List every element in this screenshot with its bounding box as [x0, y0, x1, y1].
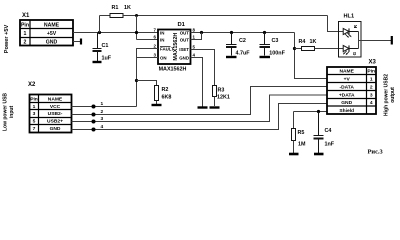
wire ON stub: [137, 57, 159, 59]
svg-text:MAX1562H: MAX1562H: [159, 67, 187, 73]
svg-text:Pin: Pin: [21, 22, 29, 28]
wire HL1 internal bus: [358, 32, 360, 49]
connector X1: [20, 20, 73, 46]
svg-text:4: 4: [370, 100, 373, 106]
svg-text:ON: ON: [160, 55, 167, 60]
svg-text:R2: R2: [162, 87, 169, 93]
svg-text:D1: D1: [178, 22, 186, 28]
ground below R3: [210, 106, 220, 108]
svg-text:R1: R1: [112, 5, 119, 11]
capacitor C1: [93, 33, 102, 62]
resistor R4: [302, 47, 315, 51]
capacitor C2: [226, 33, 237, 56]
wire HL1 output: [359, 40, 392, 42]
LED assembly HL1 box: [339, 22, 362, 58]
svg-text:C1: C1: [102, 43, 109, 49]
wire FAULT stub: [137, 49, 159, 107]
svg-text:2: 2: [101, 109, 104, 115]
svg-text:Pin: Pin: [367, 69, 375, 75]
svg-text:Low power USB: Low power USB: [3, 93, 9, 131]
wire OUT down to X3 +V: [295, 33, 328, 79]
svg-text:High power USB2: High power USB2: [384, 74, 390, 116]
wire net1 VCC: [72, 106, 137, 108]
svg-text:C4: C4: [325, 128, 332, 134]
node dot C4: [317, 110, 320, 113]
wire rail down to HL1: [328, 16, 344, 32]
resistor R3: [213, 86, 217, 97]
ground below C2: [226, 56, 237, 58]
resistor R5: [292, 129, 296, 141]
ground below C4: [314, 153, 324, 156]
svg-text:1nF: 1nF: [325, 142, 335, 148]
node dot +5V rail branch: [98, 31, 101, 34]
capacitor C4: [314, 112, 324, 154]
svg-text:IN: IN: [160, 37, 164, 42]
svg-text:FAULT: FAULT: [160, 46, 174, 51]
svg-text:Рис.3: Рис.3: [368, 149, 383, 156]
FAULT overline: [160, 46, 171, 48]
svg-text:OUT: OUT: [180, 30, 190, 35]
ground below R5: [289, 153, 299, 156]
resistor R2: [155, 86, 159, 101]
node dot net4: [92, 128, 96, 132]
svg-text:1uF: 1uF: [102, 56, 112, 62]
svg-text:1M: 1M: [298, 141, 306, 147]
svg-text:2: 2: [24, 40, 27, 46]
wire net3 USB2+: [72, 95, 328, 122]
wire shield down to R5: [293, 112, 295, 129]
svg-text:G: G: [352, 51, 357, 55]
ground below R2: [152, 104, 162, 106]
ground below C3: [260, 56, 271, 58]
svg-text:GND: GND: [179, 55, 189, 60]
node dot R2 branch: [135, 79, 138, 82]
svg-text:-DATA: -DATA: [339, 84, 354, 90]
svg-text:NAME: NAME: [44, 22, 60, 28]
svg-text:1: 1: [370, 76, 373, 82]
svg-text:X3: X3: [369, 60, 377, 66]
svg-text:GND: GND: [46, 40, 58, 46]
svg-text:X2: X2: [28, 82, 36, 88]
wire to R2: [137, 81, 157, 86]
wire to R4: [295, 48, 302, 50]
wire R4 to HL1: [315, 48, 344, 50]
terminal bar X1 GND: [80, 39, 82, 45]
IC D1 pin names: [160, 30, 174, 60]
node dot net3: [92, 120, 96, 124]
wire net4 GND: [72, 104, 328, 130]
svg-text:Power +5V: Power +5V: [4, 25, 10, 54]
svg-text:VCC: VCC: [50, 104, 61, 110]
ground below GND pin: [198, 106, 208, 108]
svg-text:2: 2: [370, 84, 373, 90]
svg-text:NAME: NAME: [48, 96, 63, 102]
node dot C2: [230, 31, 233, 34]
svg-text:R3: R3: [218, 87, 225, 93]
svg-text:1: 1: [24, 31, 27, 37]
terminal bar HL1 output: [391, 36, 393, 45]
ground below C1: [93, 61, 102, 63]
svg-text:12K1: 12K1: [217, 95, 230, 101]
IC D1 pin numbers: [154, 28, 157, 58]
svg-text:X1: X1: [22, 13, 30, 19]
connector X2: [30, 95, 72, 133]
resistor R1: [110, 14, 123, 18]
svg-text:+5V: +5V: [47, 31, 57, 37]
svg-text:6K8: 6K8: [162, 95, 172, 101]
node dot rail/IN branch: [135, 14, 138, 17]
wire pin6 jog: [137, 39, 159, 41]
svg-text:input: input: [9, 106, 15, 119]
svg-text:+V: +V: [344, 76, 351, 82]
node dot OUT jog: [200, 31, 203, 34]
svg-text:1K: 1K: [124, 5, 131, 11]
svg-text:3: 3: [370, 92, 373, 98]
wire OUT rail: [191, 32, 295, 34]
wire R5 to ground: [293, 141, 295, 154]
X1 GND stub: [73, 41, 80, 43]
wire ISET to R3: [191, 50, 215, 86]
node dot C3: [263, 31, 266, 34]
svg-text:1: 1: [101, 101, 104, 107]
wire rail up: [99, 16, 101, 33]
svg-text:C2: C2: [239, 38, 246, 44]
svg-text:output: output: [390, 87, 396, 103]
svg-text:Pin: Pin: [30, 96, 38, 102]
wire top rail right: [123, 15, 328, 17]
wire shield net: [294, 111, 328, 113]
svg-text:NAME: NAME: [339, 69, 354, 75]
connector X3: [327, 67, 376, 114]
wire top rail left: [100, 15, 111, 17]
svg-text:100nF: 100nF: [269, 51, 285, 57]
svg-text:OUT: OUT: [180, 37, 190, 42]
svg-text:C3: C3: [272, 38, 279, 44]
wire rail down to IN pins: [136, 16, 138, 40]
LED red (R): [343, 28, 358, 36]
svg-text:IN: IN: [160, 30, 164, 35]
wire R2 to ground: [156, 101, 158, 105]
svg-text:+DATA: +DATA: [339, 92, 355, 98]
wire GND pin to ground: [191, 58, 203, 107]
svg-text:3: 3: [33, 111, 36, 117]
node dot R4 branch: [293, 47, 296, 50]
svg-text:4.7uF: 4.7uF: [236, 51, 251, 57]
svg-text:GND: GND: [341, 100, 352, 106]
svg-text:4: 4: [101, 124, 104, 130]
node dot net1: [92, 105, 96, 109]
node dot net2: [92, 113, 96, 117]
wire +5V from X1 to IC pin7: [73, 32, 158, 34]
svg-text:3: 3: [101, 116, 104, 122]
svg-text:1K: 1K: [310, 39, 317, 45]
svg-text:GND: GND: [50, 126, 61, 132]
svg-text:Shield: Shield: [339, 108, 354, 114]
capacitor C3: [260, 33, 271, 56]
LED green (G): [343, 45, 358, 54]
svg-text:R5: R5: [298, 130, 305, 136]
svg-text:USB2-: USB2-: [48, 111, 63, 117]
svg-text:USB2+: USB2+: [47, 119, 63, 125]
wire net2 USB2-: [72, 87, 328, 115]
svg-text:HL1: HL1: [344, 14, 355, 20]
svg-text:ISET: ISET: [179, 47, 189, 52]
svg-text:5: 5: [33, 119, 36, 125]
svg-text:1: 1: [33, 104, 36, 110]
wire pin1 jog: [191, 33, 202, 40]
svg-text:R4: R4: [299, 39, 306, 45]
node dot on pin7 wire: [135, 31, 138, 34]
IC D1 MAX1562H box: [158, 30, 191, 65]
svg-text:7: 7: [33, 126, 36, 132]
wire R3 to ground: [214, 97, 216, 107]
